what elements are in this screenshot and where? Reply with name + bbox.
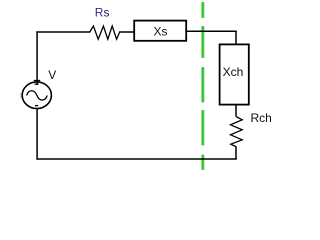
wire Xs box to right corner: [186, 30, 237, 32]
wire left vertical lower (bottom to source): [36, 109, 38, 160]
wire down to Xch box: [235, 31, 237, 44]
wire Rs to Xs box: [119, 31, 134, 33]
voltage source V (circle): [22, 82, 51, 109]
reactance Xch box: [220, 44, 249, 104]
reactance Xs box: [134, 21, 186, 41]
svg-text:Xch: Xch: [223, 65, 244, 79]
svg-text:Rch: Rch: [251, 111, 272, 125]
wire bottom horizontal: [36, 158, 236, 160]
sine wave inside source: [27, 91, 48, 100]
minus polarity mark: [35, 105, 38, 107]
dashed boundary line halo (green): [201, 3, 205, 170]
svg-text:Xs: Xs: [153, 25, 167, 39]
dashed boundary line (green): [202, 2, 204, 170]
wire top-left horizontal (source to Rs): [36, 31, 90, 33]
resistor Rch (vertical zigzag): [231, 117, 243, 147]
wire left vertical upper (source to top): [36, 31, 38, 85]
plus polarity mark: [34, 80, 40, 82]
wire Rch to bottom: [235, 146, 237, 159]
resistor Rs (zigzag): [90, 26, 120, 39]
svg-text:Rs: Rs: [95, 5, 110, 19]
wire Xch box to Rch: [235, 105, 237, 117]
svg-text:V: V: [48, 68, 56, 82]
blue tick artifact on circle left edge: [20, 93, 22, 98]
